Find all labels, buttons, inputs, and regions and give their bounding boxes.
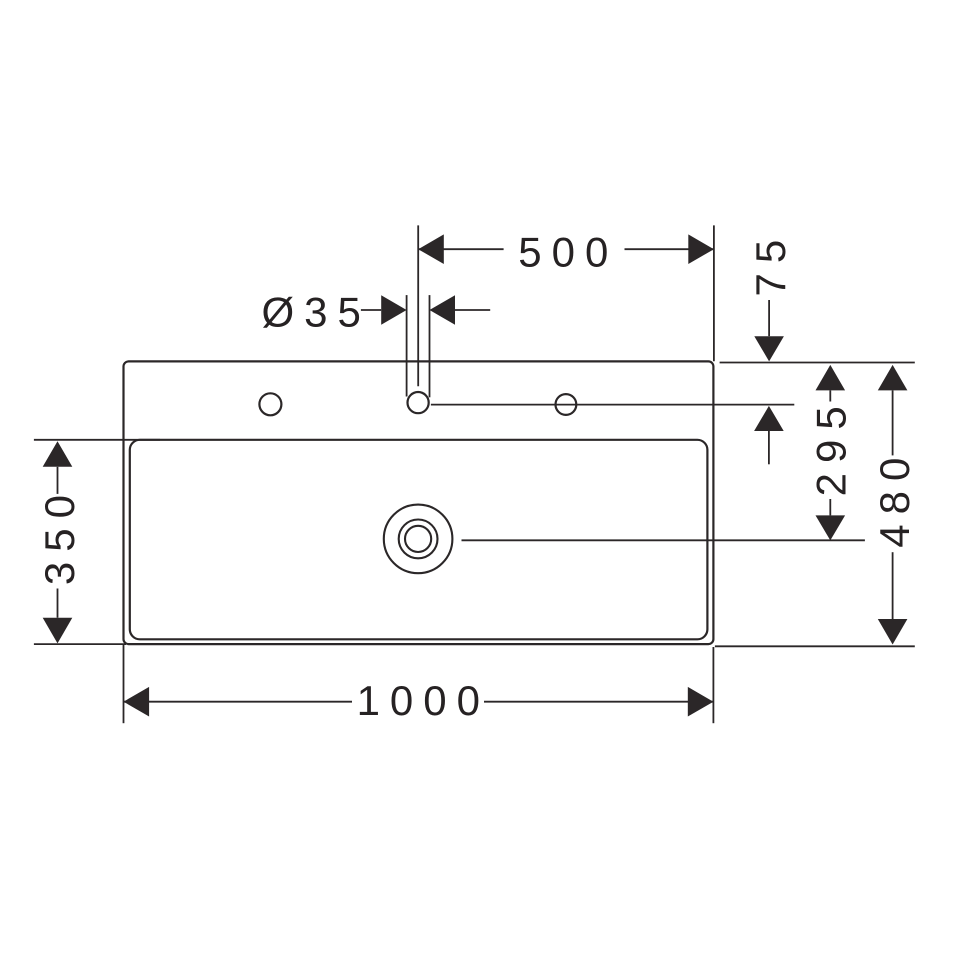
svg-text:1000: 1000 (357, 677, 490, 724)
extension line right vertical (500 dim right) (713, 225, 715, 361)
svg-text:Ø35: Ø35 (262, 288, 371, 335)
arrow 75 down (754, 336, 784, 361)
dim 295 lower segment (829, 499, 831, 515)
svg-text:295: 295 (808, 396, 855, 496)
d35 left tail (361, 309, 381, 311)
extension line faucet holes (431, 404, 794, 406)
dim 350 lower segment (57, 589, 59, 618)
dim 350 upper segment (57, 467, 59, 494)
svg-text:75: 75 (747, 230, 794, 297)
arrow 295 up (816, 365, 846, 391)
extension line center vertical (500 dim left) (417, 225, 419, 386)
extension line bottom right vertical (712, 647, 714, 723)
arrow 350 down (43, 618, 73, 644)
dim line 500 right segment (625, 248, 714, 250)
drain middle circle (399, 520, 438, 559)
faucet hole center (408, 392, 429, 413)
drain outer circle (384, 505, 453, 574)
arrow 350 up (43, 441, 73, 467)
svg-text:480: 480 (871, 448, 918, 548)
extension line basin front left (34, 439, 160, 441)
extension line drain center (462, 539, 865, 541)
arrow 480 down (878, 619, 908, 645)
arrow d35 left (points right) (381, 295, 406, 325)
extension line top edge right (720, 362, 915, 364)
basin inner bowl rounded rect (130, 440, 708, 640)
dim 75 lower tail (768, 431, 770, 464)
arrow 1000 left (124, 687, 150, 717)
arrow d35 right (points left) (430, 295, 456, 325)
svg-text:350: 350 (36, 485, 83, 585)
faucet hole right (556, 394, 577, 415)
arrow 500 left (418, 234, 444, 264)
d35 right tail (455, 309, 490, 311)
extension line bottom edge right (715, 645, 915, 647)
svg-text:500: 500 (518, 229, 618, 276)
basin outer rim rectangle (124, 361, 714, 644)
drain inner circle (405, 526, 431, 552)
d35 tangent line left (406, 295, 408, 396)
dim line 500 left segment (418, 248, 503, 250)
dim line 1000 left segment (124, 701, 353, 703)
dim 75 upper segment (768, 300, 770, 336)
dim 480 lower segment (892, 552, 894, 619)
extension line bottom left vertical (123, 645, 125, 723)
arrow 75 up (754, 406, 784, 431)
dim line 1000 right segment (484, 701, 713, 703)
arrow 295 down (816, 515, 846, 540)
arrow 500 right (688, 234, 714, 264)
dim 295 upper segment (829, 390, 831, 401)
dim 480 upper segment (892, 390, 894, 455)
arrow 480 up (878, 365, 908, 391)
faucet hole left (259, 393, 281, 415)
arrow 1000 right (688, 687, 714, 717)
d35 tangent line right (429, 295, 431, 397)
extension line basin bottom left (34, 643, 126, 645)
